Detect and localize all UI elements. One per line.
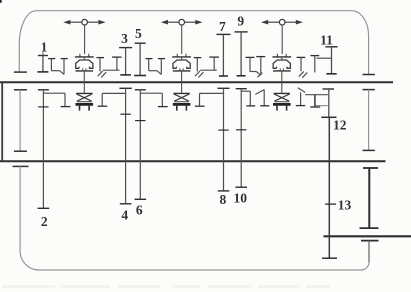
label 7: [219, 19, 226, 34]
housing right wall bearing between shafts I-II: [363, 90, 375, 151]
cut-off text row at bottom: [2, 285, 330, 287]
label 6: [136, 203, 143, 218]
hub bracket below shaft I left of clutch C lower half: [241, 90, 269, 106]
housing right wall below output shaft: [361, 241, 379, 262]
label 2: [41, 214, 48, 229]
left edge shaft line: [1, 82, 3, 161]
label 5: [135, 26, 142, 41]
gear 1: [37, 52, 48, 72]
shift fork arrow 1: [63, 19, 105, 54]
label 3: [121, 31, 128, 46]
sliding cluster gear right of clutch C: [297, 57, 308, 77]
gear 11 hub: [310, 56, 331, 73]
shaft I (input shaft): [0, 81, 393, 83]
gear on output shaft right wall (wide-face gear): [360, 168, 379, 228]
sliding cluster gears right of clutch A: [96, 57, 121, 77]
scan corner mark: [0, 0, 2, 3]
svg-text:11: 11: [320, 33, 333, 48]
gear 3: [119, 48, 132, 75]
gear 2 on shaft II: [38, 90, 50, 209]
svg-text:13: 13: [338, 198, 352, 213]
housing right wall upper + bearing cap: [363, 36, 375, 75]
svg-text:4: 4: [121, 207, 128, 222]
gear 6 on shaft II: [135, 90, 147, 200]
hub bracket below shaft I right of clutch C lower half: [296, 88, 328, 107]
svg-text:7: 7: [219, 19, 226, 34]
housing top-right corner: [352, 11, 369, 36]
svg-text:9: 9: [237, 13, 244, 28]
gear 7: [216, 34, 230, 76]
gear 10 on shaft II: [235, 89, 247, 188]
hub bracket below shaft I left of clutch A lower half: [43, 93, 70, 106]
jaw clutch B sleeve (dome): [172, 54, 191, 82]
svg-text:1: 1: [41, 40, 48, 55]
clutch C lower half (cone): [273, 82, 291, 110]
label 10: [234, 190, 248, 205]
svg-text:12: 12: [333, 117, 347, 132]
shaft II (intermediate shaft): [0, 160, 386, 162]
gear 12-13 sliding cluster on shaft II: [321, 117, 337, 258]
svg-text:2: 2: [41, 214, 48, 229]
jaw clutch A sleeve (dome): [75, 54, 94, 82]
housing left wall lower + bearing cap: [13, 166, 29, 251]
label 1: [41, 40, 48, 55]
housing bottom-right corner: [361, 262, 369, 270]
housing top-left corner: [19, 11, 36, 44]
label 11: [320, 33, 333, 48]
housing bottom-left corner: [20, 251, 39, 270]
gear 8 on shaft II: [218, 88, 230, 191]
svg-text:10: 10: [234, 190, 248, 205]
housing left wall upper + bearing cap: [14, 44, 27, 72]
svg-text:3: 3: [121, 31, 128, 46]
label 9: [237, 13, 244, 28]
sliding cluster gears left of clutch B: [146, 59, 166, 75]
gear 5: [134, 43, 146, 75]
gear 12 mate below shaft I: [323, 89, 335, 117]
label 13: [338, 198, 352, 213]
shift fork arrow 2: [161, 19, 203, 54]
sliding cluster gears left of clutch C: [246, 57, 266, 78]
clutch A lower half (cone): [76, 82, 94, 110]
label 12: [333, 117, 347, 132]
sliding cluster gears right of clutch B: [194, 57, 219, 77]
clutch B lower half (cone): [173, 82, 191, 110]
sliding cluster gears left of clutch A: [48, 59, 68, 75]
gear 11: [325, 47, 337, 74]
label 4: [121, 207, 128, 222]
hub bracket below shaft I left of clutch B lower half: [140, 93, 167, 106]
shift fork arrow 3: [261, 19, 303, 54]
gear 4 on shaft II: [119, 88, 131, 204]
label 8: [220, 192, 227, 207]
housing bottom wall: [39, 269, 361, 271]
shaft III (output shaft): [324, 235, 411, 237]
gear 9: [235, 32, 248, 76]
housing top wall: [36, 10, 352, 12]
svg-text:8: 8: [220, 192, 227, 207]
svg-text:6: 6: [136, 203, 143, 218]
hub bracket below shaft I right of clutch B lower half: [195, 93, 224, 106]
jaw clutch C sleeve (dome): [272, 54, 291, 82]
housing left wall bearing between shafts: [14, 90, 27, 151]
svg-text:5: 5: [135, 26, 142, 41]
hub bracket below shaft I right of clutch A lower half: [98, 93, 126, 106]
